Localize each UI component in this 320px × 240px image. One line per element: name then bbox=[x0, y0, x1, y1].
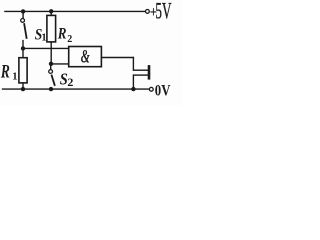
svg-text:2: 2 bbox=[67, 34, 72, 45]
wire node A to gate input 1 bbox=[23, 47, 69, 49]
svg-text:1: 1 bbox=[41, 32, 46, 43]
node A junction S1/R1/gate bbox=[21, 46, 25, 50]
wire R1 top lead bbox=[22, 48, 24, 57]
switch S1 contact circle bbox=[21, 19, 25, 23]
wire 0V bottom rail bbox=[3, 88, 150, 90]
earphone bottom line bbox=[133, 74, 148, 76]
switch S2 contact circle bbox=[49, 70, 53, 74]
terminal +5V open circle bbox=[146, 10, 150, 14]
node B junction R2/S2/gate bbox=[49, 62, 53, 66]
wire gate output down to earphone bbox=[132, 58, 134, 71]
wire S1 top lead bbox=[22, 11, 24, 18]
and-gate U1 box bbox=[69, 47, 102, 67]
svg-text:1: 1 bbox=[12, 72, 17, 83]
svg-text:5V: 5V bbox=[155, 0, 171, 25]
wire gate output horizontal bbox=[101, 57, 133, 59]
resistor R2 bbox=[47, 15, 56, 42]
svg-text:0V: 0V bbox=[155, 82, 171, 100]
resistor R1 bbox=[19, 58, 27, 83]
switch S1 blade bbox=[24, 23, 27, 39]
wire S2 top lead bbox=[50, 66, 52, 70]
wire node B to gate input 2 bbox=[51, 63, 69, 65]
wire earphone bottom lead bbox=[132, 75, 134, 89]
switch S2 blade bbox=[51, 75, 55, 86]
wire R2 top lead bbox=[50, 11, 52, 15]
node junction earphone / 0V rail bbox=[131, 87, 135, 91]
node junction top rail / S1 bbox=[21, 9, 25, 13]
terminal 0V open circle bbox=[149, 87, 153, 91]
wire S1 bottom lead bbox=[22, 41, 24, 49]
earphone top line bbox=[133, 69, 148, 71]
svg-text:2: 2 bbox=[67, 75, 73, 89]
wire R2 bottom lead bbox=[50, 42, 52, 64]
svg-text:&: & bbox=[81, 47, 91, 67]
node junction R1 / 0V rail bbox=[21, 87, 25, 91]
wire +5V top rail bbox=[5, 10, 145, 12]
node junction top rail / R2 bbox=[49, 9, 53, 13]
wire R1 bottom lead bbox=[22, 83, 24, 89]
svg-text:R: R bbox=[0, 60, 10, 82]
node junction S2 / 0V rail bbox=[49, 87, 53, 91]
earphone bar bbox=[148, 65, 151, 80]
svg-text:R: R bbox=[57, 25, 67, 42]
